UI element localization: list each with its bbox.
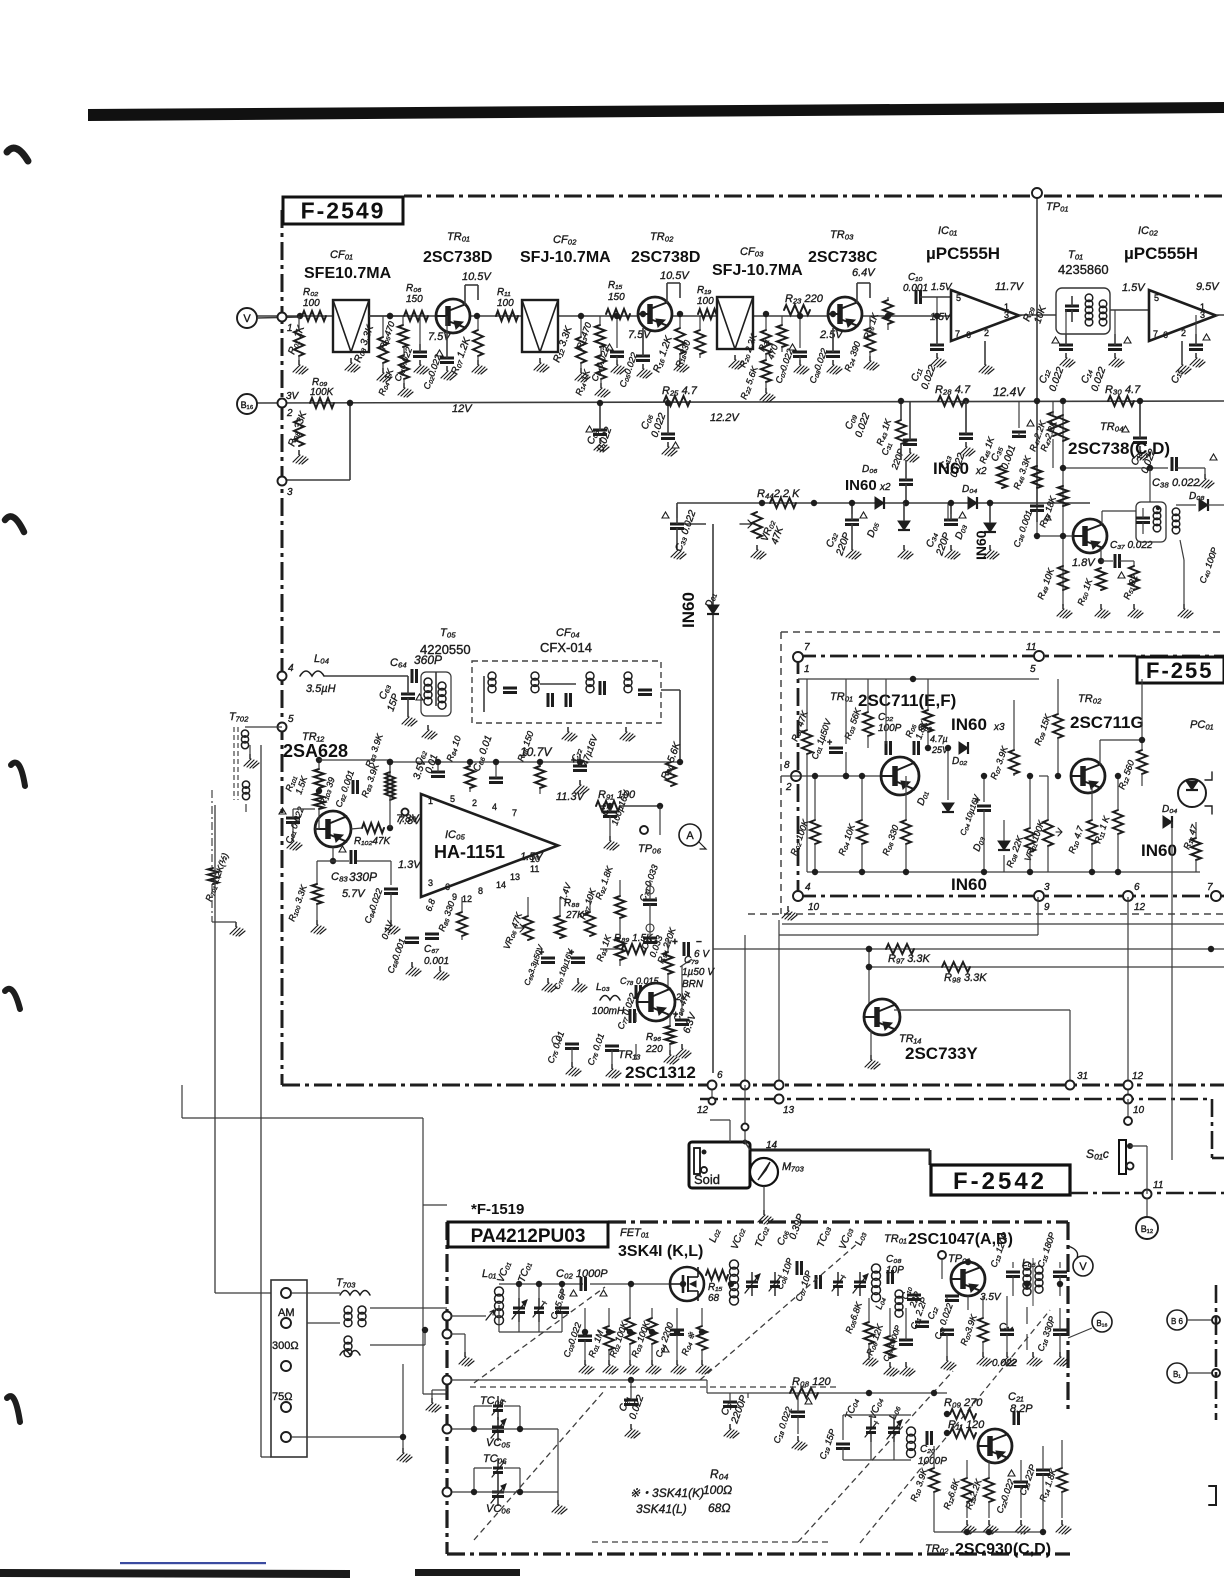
svg-text:8: 8	[478, 886, 483, 896]
F-2542 right border jog	[1211, 1099, 1214, 1158]
wire CF01 out	[369, 315, 404, 317]
capacitor C04 2200	[670, 1329, 684, 1332]
wire stub	[676, 1334, 678, 1360]
svg-text:R₁₄ 1.8K: R₁₄ 1.8K	[1037, 1466, 1058, 1502]
svg-text:R₁₆ 1.2K: R₁₆ 1.2K	[651, 334, 675, 374]
junction dot	[578, 313, 584, 319]
wire stub	[649, 904, 651, 938]
wire VC bottom	[499, 1331, 562, 1333]
resistor R45 1K	[997, 466, 1007, 488]
svg-text:75Ω: 75Ω	[272, 1391, 292, 1403]
capacitor C73 0.033	[643, 899, 657, 902]
wire stub	[868, 1298, 870, 1322]
F255 top rail	[798, 678, 1039, 680]
svg-text:TC₀₃: TC₀₃	[815, 1225, 833, 1249]
junction D04 out	[987, 500, 993, 506]
resistor R84 10	[465, 766, 475, 788]
svg-text:B 6: B 6	[1171, 1317, 1184, 1326]
op-amp IC01 uPC555H	[951, 290, 1019, 341]
varcap VC04	[888, 1427, 900, 1430]
ground R08	[298, 450, 300, 455]
svg-text:R₉₇ 3.3K: R₉₇ 3.3K	[888, 953, 931, 965]
transistor F255 TR02 2SC711G	[1071, 759, 1105, 793]
svg-text:+: +	[672, 937, 678, 948]
wire stub	[1059, 1308, 1061, 1330]
resistor R103 39	[314, 793, 324, 809]
svg-text:1000P: 1000P	[918, 1456, 947, 1467]
wire stub	[580, 316, 582, 337]
terminal B12	[1136, 1217, 1158, 1239]
junction dot	[885, 313, 891, 319]
wire stub	[609, 806, 611, 812]
resistor R03 3.3K	[378, 337, 388, 363]
junction dot	[965, 1259, 971, 1265]
resistor R30 4.7	[1108, 396, 1134, 406]
junction dot	[1027, 773, 1033, 779]
wire stub	[947, 503, 949, 521]
capacitor F255 C04 10u16V	[977, 805, 991, 808]
svg-text:100: 100	[303, 298, 320, 309]
svg-text:R₀₇ 3.9K: R₀₇ 3.9K	[988, 744, 1010, 781]
svg-text:5.7V: 5.7V	[342, 888, 366, 900]
svg-text:12: 12	[1132, 1071, 1144, 1082]
capacitor C09 1000P	[899, 1339, 913, 1342]
svg-text:7: 7	[1153, 329, 1158, 339]
svg-text:4: 4	[805, 882, 811, 893]
resistor R100 3.3K	[312, 884, 322, 904]
capacitor C33 0.022	[670, 523, 684, 526]
photocoupler PC01	[1178, 779, 1206, 807]
node 7/1 open circle	[793, 652, 803, 662]
capacitor C03 0.022	[578, 1335, 592, 1338]
wire stub	[941, 1259, 943, 1279]
svg-text:6.4V: 6.4V	[852, 267, 876, 279]
resistor R89 1.5K	[600, 948, 622, 950]
resistor R50 1K	[1096, 568, 1106, 590]
wire TR04 collector	[1101, 511, 1103, 524]
svg-text:L₀₃: L₀₃	[596, 982, 610, 993]
svg-text:3V: 3V	[286, 391, 300, 402]
T01 secondary coil	[1099, 300, 1107, 308]
wire stub	[845, 752, 847, 776]
wire T703 down	[402, 1364, 404, 1448]
svg-text:6.8: 6.8	[423, 898, 437, 913]
terminal V pa	[1073, 1256, 1093, 1276]
resistor F255 R08 22K	[1025, 828, 1035, 852]
delta C15	[1203, 334, 1210, 340]
CF04 resonator 1	[488, 672, 496, 680]
svg-text:F-255: F-255	[1146, 658, 1213, 683]
wire B1	[1187, 1372, 1216, 1374]
wire R91 out	[620, 805, 660, 807]
PA block left border	[445, 1222, 448, 1554]
junction dot	[699, 1329, 705, 1335]
wire C10 to IC01	[920, 296, 951, 298]
capacitor C11 2.2P	[915, 1321, 929, 1324]
ground R701	[235, 922, 237, 927]
wire y924	[782, 923, 1224, 925]
svg-text:6: 6	[1134, 882, 1140, 893]
delta C07	[789, 344, 796, 350]
wire TR12 base	[318, 809, 320, 829]
TR02 collector wire	[666, 283, 668, 303]
wire stub	[832, 328, 834, 352]
diode D03	[984, 523, 996, 532]
svg-text:C₁₈ 0.022: C₁₈ 0.022	[771, 1405, 793, 1444]
svg-text:PC₀₁: PC₀₁	[1190, 719, 1214, 731]
capacitor C37 0.022	[1114, 554, 1117, 568]
svg-text:TR₀₂: TR₀₂	[650, 231, 674, 243]
svg-text:CF₀₄: CF₀₄	[556, 627, 580, 639]
svg-text:6: 6	[717, 1070, 723, 1081]
svg-text:4: 4	[288, 663, 294, 674]
capacitor C08 0.022	[826, 351, 840, 354]
svg-text:IN60: IN60	[951, 715, 987, 734]
transistor TR14 2SC733Y	[864, 999, 900, 1035]
antenna terminal box	[271, 1280, 307, 1457]
svg-text:R₅₀ 1K: R₅₀ 1K	[1075, 577, 1094, 607]
resistor R01 1K	[294, 330, 304, 356]
svg-text:L₀₄: L₀₄	[314, 653, 329, 665]
svg-text:R₈₅ 330: R₈₅ 330	[436, 900, 456, 933]
svg-text:R₉₁ 100: R₉₁ 100	[598, 789, 636, 801]
wire stub	[681, 966, 683, 1016]
resistor R43 1K	[896, 420, 906, 444]
delta C18	[805, 1398, 812, 1404]
capacitor C13 120P	[1006, 1271, 1020, 1274]
junction dot	[1024, 1281, 1030, 1287]
svg-text:B₁: B₁	[1173, 1370, 1181, 1379]
svg-text:CF₀₂: CF₀₂	[553, 234, 577, 246]
svg-text:R₉₃ 1K: R₉₃ 1K	[594, 933, 613, 963]
wire stub	[642, 328, 644, 356]
wire B6	[1187, 1319, 1216, 1321]
svg-text:PA4212PU03: PA4212PU03	[471, 1226, 586, 1247]
wire VR02 feed	[677, 523, 706, 525]
terminal t2	[281, 1318, 291, 1328]
svg-text:C₇₉: C₇₉	[684, 955, 699, 966]
wire stub	[561, 1312, 563, 1332]
svg-text:IN60: IN60	[973, 530, 989, 560]
wire stub	[1013, 774, 1015, 776]
svg-text:IN60: IN60	[933, 459, 969, 478]
pin1 open	[402, 809, 409, 816]
svg-text:5: 5	[1030, 664, 1036, 675]
resistor F255 R03 56K	[863, 712, 873, 736]
ground CF02	[539, 358, 541, 363]
capacitor C05 0.022	[636, 355, 650, 358]
ground R03	[382, 368, 384, 373]
svg-text:D₀₂: D₀₂	[952, 756, 967, 767]
resistor R12 6.8K	[962, 1478, 972, 1502]
wire stub	[1006, 1334, 1008, 1352]
svg-text:TR₀₄: TR₀₄	[1100, 421, 1124, 433]
wire stub	[869, 352, 871, 356]
svg-text:6: 6	[966, 330, 971, 340]
svg-text:IN60: IN60	[951, 875, 987, 894]
wire stub	[814, 776, 816, 820]
capacitor C16 0.022	[1133, 437, 1147, 440]
transformer T703 coil c	[344, 1336, 352, 1344]
svg-text:R₁₈330: R₁₈330	[673, 339, 692, 369]
svg-text:x2: x2	[975, 466, 987, 477]
svg-text:1: 1	[1004, 302, 1009, 312]
svg-text:D₀₈: D₀₈	[1189, 491, 1205, 502]
junction dot	[665, 400, 671, 406]
wire stub	[1195, 315, 1197, 334]
svg-text:C₆₆ 0.01: C₆₆ 0.01	[471, 734, 494, 773]
wire stub	[982, 1342, 984, 1352]
svg-text:C₈₁ 0.022: C₈₁ 0.022	[283, 805, 305, 844]
delta C14	[1124, 337, 1131, 343]
svg-text:C₂₂0.022: C₂₂0.022	[994, 1478, 1016, 1515]
wire L04 to C64	[324, 675, 408, 677]
transistor TR01 2SC1047	[951, 1262, 985, 1296]
wire stub	[1052, 401, 1054, 415]
capacitor C81 0.022	[286, 817, 300, 820]
potentiometer VR02 47K	[752, 512, 762, 538]
capacitor C15 0.22	[1189, 344, 1203, 347]
svg-text:7: 7	[804, 642, 810, 653]
capacitor C20 1000P	[926, 1431, 929, 1445]
wire stub	[1029, 776, 1031, 828]
delta C16	[1122, 426, 1129, 432]
svg-text:R₄₉ 10K: R₄₉ 10K	[1035, 566, 1056, 601]
svg-text:R₂₃ 220: R₂₃ 220	[785, 293, 824, 305]
ground cluster HA bottom	[439, 966, 441, 971]
grounds PA mid	[868, 1352, 870, 1357]
resistor F255 R01 47K	[802, 730, 812, 754]
svg-text:C₁₂: C₁₂	[925, 1305, 939, 1321]
wire stub	[679, 316, 681, 328]
page bottom rule bar mid	[415, 1569, 520, 1576]
diode D06	[875, 497, 884, 509]
svg-text:9: 9	[452, 892, 457, 902]
delta C02pa	[600, 1290, 607, 1296]
delta C01pa	[570, 1290, 577, 1296]
wire stub	[967, 1296, 969, 1310]
wire stub	[927, 732, 929, 748]
svg-text:C₀₆ 10P: C₀₆ 10P	[774, 1257, 794, 1291]
svg-text:6: 6	[1163, 330, 1168, 340]
svg-text:12.2V: 12.2V	[710, 412, 740, 424]
svg-text:VC₀₅: VC₀₅	[486, 1437, 511, 1449]
svg-text:2: 2	[785, 782, 792, 793]
label TP01 pa	[938, 1251, 946, 1259]
terminal B16 pa	[1092, 1312, 1112, 1332]
capacitor C36 0.001	[1030, 505, 1044, 508]
delta C04pa	[662, 1346, 669, 1352]
F-255 outer dashed left	[780, 632, 782, 914]
filter CF04 dashed box	[472, 661, 661, 723]
svg-text:TR₀₃: TR₀₃	[830, 229, 854, 241]
ground R14	[600, 383, 602, 388]
F-2542 top dash-dot border	[700, 1098, 1212, 1101]
F-255 inner border left	[797, 656, 800, 896]
svg-text:BRN: BRN	[682, 979, 704, 990]
transformer T703 coil b	[344, 1306, 352, 1314]
junction dot	[866, 964, 872, 970]
wire stub	[1195, 822, 1197, 838]
wire stub	[1029, 852, 1031, 872]
svg-text:14: 14	[766, 1140, 778, 1151]
svg-text:C₀₈0.022: C₀₈0.022	[807, 347, 829, 385]
svg-text:C₀₄ 10µ16V: C₀₄ 10µ16V	[958, 793, 981, 836]
svg-text:M₇₀₃: M₇₀₃	[782, 1161, 805, 1173]
junction dot	[627, 1329, 633, 1335]
svg-text:R₁₅: R₁₅	[608, 280, 622, 291]
junction dot	[1089, 869, 1095, 875]
junction dot	[559, 1281, 565, 1287]
svg-text:1µ50 V: 1µ50 V	[682, 967, 715, 978]
delta C63	[416, 694, 423, 700]
svg-text:B₁₂: B₁₂	[1141, 1224, 1154, 1234]
capacitor C17 2200P	[723, 1401, 737, 1404]
wire stub	[893, 1436, 895, 1460]
wire stub	[659, 806, 661, 835]
resistor R97 3.3K	[886, 944, 914, 954]
wire stub	[580, 363, 582, 368]
terminal B1	[1167, 1363, 1187, 1383]
resistor R20 2.2K	[761, 330, 771, 354]
delta C02	[436, 350, 443, 356]
stub below 1099	[1127, 1099, 1129, 1117]
junction dot	[931, 1390, 937, 1396]
junction dot	[582, 1329, 588, 1335]
svg-text:2SC738(C,D): 2SC738(C,D)	[1068, 439, 1170, 458]
wire stub	[298, 356, 300, 360]
resistor R10 3.9K	[929, 1468, 939, 1492]
wire stub	[616, 356, 618, 360]
terminal V	[237, 308, 257, 328]
junction dot	[1115, 773, 1121, 779]
svg-text:R₉₆: R₉₆	[646, 1032, 661, 1043]
page bottom rule bar left	[0, 1569, 350, 1578]
terminal B6	[1167, 1310, 1187, 1330]
label 6V	[680, 959, 692, 967]
svg-text:11.3V: 11.3V	[556, 791, 586, 803]
trimcap TC03	[833, 1281, 843, 1284]
svg-text:1.5V: 1.5V	[930, 312, 952, 323]
node 1 open circle	[278, 313, 287, 322]
svg-text:+: +	[827, 737, 832, 747]
wire stub	[1195, 860, 1197, 872]
svg-text:R₈₄ 10: R₈₄ 10	[444, 734, 462, 762]
resistor F255 R07 3.9K	[1009, 750, 1019, 774]
TC06 loop wire	[474, 1467, 492, 1469]
capacitor C03 0.022	[593, 429, 607, 432]
delta C32	[860, 512, 867, 518]
F255 mid rail	[781, 775, 882, 777]
trimcap TC05	[493, 1405, 503, 1408]
junction dot	[812, 773, 818, 779]
wire stub	[1003, 820, 1005, 841]
svg-text:C₀₃: C₀₃	[918, 722, 932, 732]
resistor R09 100K	[310, 398, 334, 408]
wire stub	[1026, 1334, 1028, 1350]
terminal t3	[281, 1361, 291, 1371]
wire stub	[1020, 1486, 1022, 1518]
wire stub	[861, 844, 863, 872]
junction dot	[607, 803, 613, 809]
F-2542 label box	[931, 1165, 1070, 1195]
junction C31	[903, 500, 909, 506]
wire stub	[1003, 855, 1005, 872]
inductor L04 3.5uH	[300, 671, 324, 676]
svg-text:R₀₉ 15K: R₀₉ 15K	[1032, 712, 1053, 747]
svg-text:A: A	[686, 830, 694, 842]
svg-text:TC₀₄: TC₀₄	[843, 1397, 861, 1421]
svg-text:C₂₀: C₂₀	[920, 1444, 935, 1455]
stub 12	[711, 1090, 713, 1098]
vertical wire x1128	[1127, 897, 1129, 1099]
junction dot	[677, 311, 683, 317]
junction dot	[1060, 398, 1066, 404]
resistor R23 220	[784, 305, 810, 315]
wire stub	[1012, 1276, 1014, 1296]
svg-text:100Ω: 100Ω	[703, 1483, 732, 1497]
nodes on 1099 line	[775, 1095, 784, 1104]
wire AM to T703	[291, 1292, 340, 1294]
node 3 open circle	[278, 477, 287, 486]
wire 14 stub	[744, 1128, 746, 1142]
wire x558 gang	[557, 1429, 559, 1500]
capacitor C04 0.022	[610, 351, 624, 354]
vertical x1063	[1062, 401, 1064, 606]
wire stub	[799, 316, 801, 348]
svg-text:2SC930(C,D): 2SC930(C,D)	[955, 1541, 1051, 1558]
junction dot	[981, 773, 987, 779]
F-255 outer dashed top	[781, 631, 1224, 633]
resistor R86 150	[535, 766, 545, 788]
svg-text:TC₀₅: TC₀₅	[480, 1395, 504, 1407]
svg-text:100K: 100K	[310, 387, 335, 398]
resistor R49 10K	[1058, 566, 1068, 590]
wire stub	[651, 1344, 653, 1360]
junction dot	[387, 313, 393, 319]
junction dot	[640, 311, 646, 317]
resistor F255 R11 1K	[1113, 810, 1123, 834]
resistor R26 1K	[883, 300, 893, 324]
wire to B12	[1146, 1198, 1148, 1217]
wire stub	[885, 679, 887, 744]
capacitor C23 22P	[1036, 1469, 1050, 1472]
binding hook 1	[7, 148, 28, 161]
capacitor C68 0.001	[405, 937, 419, 940]
svg-text:R₀₄ 1K: R₀₄ 1K	[376, 367, 395, 397]
svg-text:1.5V: 1.5V	[520, 851, 544, 863]
wire stub	[599, 316, 601, 325]
svg-text:12: 12	[697, 1105, 709, 1116]
wire stub	[861, 776, 863, 820]
svg-text:C₀₂ 1000P: C₀₂ 1000P	[556, 1268, 608, 1280]
ground outside border	[432, 1389, 447, 1391]
svg-text:1.5V: 1.5V	[1122, 282, 1146, 294]
svg-text:3SK41(L): 3SK41(L)	[636, 1502, 687, 1516]
varcap VC06	[492, 1491, 504, 1494]
junction dot	[1139, 737, 1145, 743]
transformer T703 coil a	[340, 1291, 370, 1296]
junction dot	[797, 313, 803, 319]
capacitor C75 0.01	[565, 1043, 579, 1046]
junction dot	[934, 313, 940, 319]
resistor R19 100	[698, 309, 720, 319]
svg-text:R₁₃ 47: R₁₃ 47	[1181, 822, 1199, 850]
wire stub	[635, 1044, 637, 1060]
wire stub	[1012, 1262, 1014, 1268]
resistor R05 470	[398, 325, 408, 347]
svg-text:*F-1519: *F-1519	[471, 1201, 524, 1218]
